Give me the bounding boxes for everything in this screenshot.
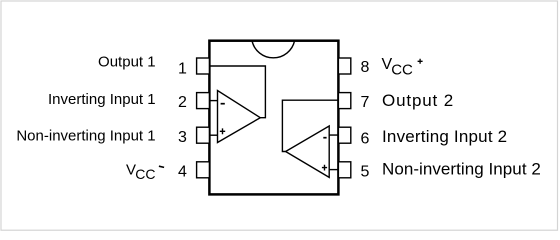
pin 1 pad bbox=[197, 58, 210, 74]
svg-text:4: 4 bbox=[178, 164, 187, 181]
svg-text:3: 3 bbox=[178, 129, 187, 146]
op-amp B minus marker bbox=[323, 137, 326, 139]
pin 6 pad bbox=[338, 127, 350, 143]
wire: pin 5 to op-amp B non-inverting input bbox=[329, 169, 338, 171]
wire: pin 1 to op-amp A output bbox=[209, 66, 265, 118]
pin 5 pad bbox=[338, 162, 350, 178]
wire: pin 7 to op-amp B output bbox=[282, 100, 338, 151]
op-amp A plus marker bbox=[220, 128, 225, 134]
svg-text:Non-inverting Input 2: Non-inverting Input 2 bbox=[382, 160, 541, 179]
pin 3 pad bbox=[197, 127, 210, 143]
pin 8 pad bbox=[338, 58, 350, 74]
pin 7 pad bbox=[338, 93, 350, 109]
op-amp B plus marker bbox=[322, 165, 327, 171]
svg-text:CC: CC bbox=[135, 166, 155, 182]
svg-text:CC: CC bbox=[391, 62, 413, 79]
pin-1 index notch bbox=[252, 41, 295, 58]
op-amp A triangle bbox=[218, 91, 261, 143]
svg-text:Non-inverting Input 1: Non-inverting Input 1 bbox=[16, 128, 155, 145]
op-amp B triangle bbox=[286, 126, 330, 177]
op-amp A minus marker bbox=[221, 103, 225, 105]
wire: pin 6 to op-amp B inverting input bbox=[329, 134, 338, 136]
svg-text:2: 2 bbox=[178, 94, 187, 111]
svg-text:Inverting Input 1: Inverting Input 1 bbox=[48, 91, 156, 108]
svg-text:1: 1 bbox=[178, 61, 187, 78]
svg-text:6: 6 bbox=[361, 130, 370, 147]
svg-text:8: 8 bbox=[361, 59, 370, 76]
svg-text:Output 1: Output 1 bbox=[98, 53, 156, 70]
IC package U1 body (8-pin DIP) bbox=[209, 41, 338, 195]
svg-text:Inverting Input 2: Inverting Input 2 bbox=[382, 127, 507, 146]
svg-text:7: 7 bbox=[361, 94, 370, 111]
pin 2 pad bbox=[197, 93, 210, 109]
wire: pin 2 to op-amp A inverting input bbox=[209, 100, 217, 102]
pin 4 pad bbox=[197, 162, 210, 178]
svg-text:5: 5 bbox=[361, 164, 370, 181]
wire: pin 3 to op-amp A non-inverting input bbox=[209, 134, 217, 136]
svg-text:Output 2: Output 2 bbox=[382, 91, 454, 110]
